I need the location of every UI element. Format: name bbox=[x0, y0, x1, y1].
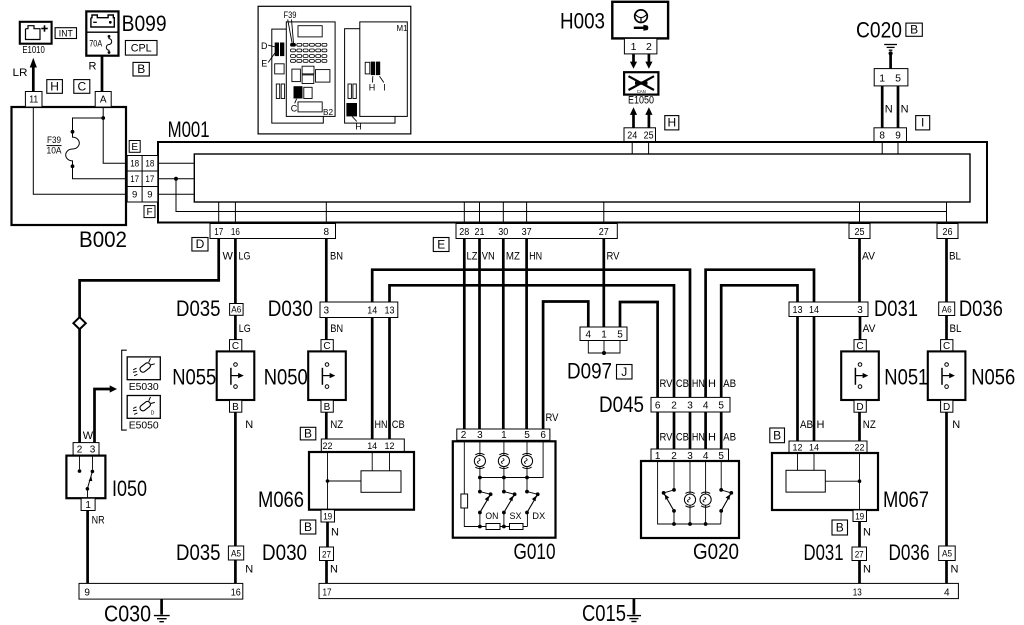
svg-text:18: 18 bbox=[130, 159, 139, 170]
door lock actuator M066 bbox=[309, 452, 414, 510]
wire MZ from M001 pin 30 to G010 pin 1 bbox=[502, 239, 505, 430]
svg-text:21: 21 bbox=[475, 227, 485, 238]
svg-text:D035: D035 bbox=[176, 296, 221, 321]
svg-text:A5: A5 bbox=[231, 549, 241, 560]
G010 bottom resistors bbox=[486, 524, 527, 530]
boxed letter E bbox=[433, 237, 449, 251]
svg-text:D036: D036 bbox=[959, 296, 1003, 321]
svg-text:NR: NR bbox=[92, 515, 105, 527]
connector D031 pin 27 bbox=[852, 547, 867, 561]
svg-text:C: C bbox=[856, 341, 863, 352]
svg-text:C020: C020 bbox=[856, 17, 902, 42]
wire HN from M001 pin 37 to G010 pin 5 bbox=[525, 239, 528, 430]
B002 internal wiring and node bbox=[33, 107, 127, 194]
svg-text:D097: D097 bbox=[567, 359, 612, 384]
svg-text:AV: AV bbox=[862, 250, 876, 262]
svg-text:N: N bbox=[330, 564, 338, 576]
svg-text:A5: A5 bbox=[942, 549, 952, 560]
svg-text:H: H bbox=[708, 378, 716, 390]
pin A of B002 bbox=[95, 92, 111, 108]
connector C of N050 bbox=[321, 340, 333, 352]
svg-text:RV: RV bbox=[660, 432, 674, 444]
wire NZ from N051 to M067 pin 22 bbox=[858, 412, 861, 441]
wire BL to N056 bbox=[945, 316, 948, 340]
boxed letter D bbox=[192, 237, 208, 251]
svg-text:M067: M067 bbox=[883, 487, 929, 512]
wire branch from I050 pin 3 with arrow to keys bbox=[95, 385, 118, 442]
wire N from M067 pin 19 bbox=[858, 522, 861, 548]
G010 lamp column pin 3 bbox=[474, 440, 485, 491]
G010 lamp column pin 1 bbox=[498, 440, 509, 491]
svg-text:D031: D031 bbox=[804, 540, 844, 565]
boxed letter C bbox=[74, 79, 90, 93]
ignition switch I050 bbox=[66, 456, 105, 499]
svg-text:13: 13 bbox=[385, 306, 395, 317]
wire labels below D045 bbox=[660, 432, 737, 444]
wire RV from D097 pin 5 to D045 pin 6 bbox=[620, 302, 658, 397]
G020 left switch bbox=[662, 461, 676, 526]
boxed letter B bbox=[300, 520, 316, 534]
boxed letter B bbox=[906, 23, 922, 37]
svg-text:E: E bbox=[131, 142, 138, 153]
svg-text:BN: BN bbox=[330, 250, 343, 262]
svg-text:B: B bbox=[232, 402, 239, 413]
svg-text:E5050: E5050 bbox=[129, 419, 159, 431]
svg-text:C: C bbox=[232, 341, 239, 352]
inset left rear panel bbox=[272, 29, 324, 123]
svg-text:CPL: CPL bbox=[131, 43, 152, 55]
svg-text:H: H bbox=[369, 82, 376, 92]
M001 bottom connector pin 26 bbox=[937, 224, 958, 239]
inset left front panel B2 bbox=[286, 22, 335, 117]
fuse F39 10A bbox=[47, 130, 128, 179]
svg-text:MZ: MZ bbox=[506, 250, 520, 262]
svg-text:D030: D030 bbox=[268, 296, 313, 321]
H003 connector pins 1 2 bbox=[624, 38, 657, 54]
svg-text:M066: M066 bbox=[258, 487, 304, 512]
wire RV from M001 pin 27 to D097 bbox=[602, 239, 605, 328]
svg-text:A6: A6 bbox=[231, 305, 241, 316]
connector D035 pin A6 bbox=[230, 304, 244, 316]
svg-text:B: B bbox=[773, 428, 781, 442]
wire VN from M001 pin 21 to G010 pin 3 bbox=[478, 239, 481, 430]
wire W from M001 pin 17 bbox=[80, 239, 219, 319]
svg-text:NZ: NZ bbox=[330, 419, 343, 431]
svg-text:W: W bbox=[223, 250, 234, 262]
svg-text:B: B bbox=[304, 520, 312, 534]
svg-text:SX: SX bbox=[510, 511, 523, 522]
M001 top connector pins 8 9 bbox=[874, 128, 907, 142]
turn signal switch G020 bbox=[641, 461, 739, 538]
svg-text:E1010: E1010 bbox=[22, 44, 45, 56]
ground symbol of C030 bbox=[154, 599, 170, 622]
svg-text:B099: B099 bbox=[122, 11, 167, 36]
svg-text:5: 5 bbox=[895, 72, 901, 84]
svg-text:6: 6 bbox=[540, 430, 546, 441]
wire AV from M001 pin 25 bbox=[858, 239, 861, 303]
splice connector D097 pins 4 1 5 bbox=[580, 327, 627, 341]
svg-text:D045: D045 bbox=[599, 392, 644, 417]
wire LR arrow to E1010 bbox=[30, 58, 37, 92]
svg-text:HN: HN bbox=[692, 432, 705, 444]
svg-text:N: N bbox=[952, 419, 960, 431]
wire LG to N055 bbox=[234, 315, 237, 339]
junction unit B002 bbox=[12, 107, 127, 225]
svg-text:19: 19 bbox=[323, 511, 332, 522]
svg-text:N056: N056 bbox=[971, 365, 1015, 390]
G020 right switch bbox=[719, 461, 733, 524]
svg-text:BL: BL bbox=[949, 250, 961, 262]
wire R from B099 to B002 pin A bbox=[101, 56, 104, 92]
svg-text:25: 25 bbox=[644, 130, 654, 141]
svg-text:NZ: NZ bbox=[863, 419, 876, 431]
inset connector C highlighted bbox=[291, 86, 312, 113]
svg-text:2: 2 bbox=[461, 430, 467, 441]
svg-text:17: 17 bbox=[130, 174, 139, 185]
svg-text:1: 1 bbox=[601, 330, 607, 341]
svg-text:I: I bbox=[921, 116, 924, 130]
svg-text:AB: AB bbox=[723, 378, 736, 390]
svg-text:C030: C030 bbox=[104, 601, 151, 625]
svg-text:N: N bbox=[245, 419, 253, 431]
svg-text:AB: AB bbox=[800, 419, 813, 431]
svg-text:D035: D035 bbox=[176, 540, 221, 565]
svg-text:N: N bbox=[951, 564, 959, 576]
svg-text:3: 3 bbox=[324, 306, 330, 317]
ground connector bar C030 bbox=[79, 583, 243, 599]
connector D036 pin A5 bbox=[939, 546, 956, 561]
svg-text:3: 3 bbox=[90, 445, 96, 456]
svg-text:3: 3 bbox=[477, 430, 483, 441]
inset label F39 with leaders bbox=[284, 10, 297, 43]
svg-text:26: 26 bbox=[943, 227, 953, 238]
svg-text:N: N bbox=[245, 564, 253, 576]
svg-text:E: E bbox=[437, 237, 445, 251]
svg-text:INT: INT bbox=[59, 28, 73, 39]
svg-text:N: N bbox=[863, 527, 871, 539]
svg-text:1: 1 bbox=[631, 41, 637, 53]
svg-text:9: 9 bbox=[895, 130, 901, 141]
hazard warning switch G010 bbox=[453, 441, 556, 537]
G020 connector pins 1 2 3 4 5 bbox=[651, 449, 729, 462]
svg-text:2: 2 bbox=[671, 401, 677, 412]
wire LG from M001 pin 16 bbox=[234, 239, 237, 304]
C020 connector pins 1 5 bbox=[874, 69, 908, 86]
svg-text:N: N bbox=[863, 564, 871, 576]
connector D of N051 bbox=[854, 400, 866, 412]
G020 lamp pin 4 bbox=[700, 461, 711, 526]
boxed letter B bbox=[832, 520, 848, 535]
wire N from M066 pin 19 bbox=[326, 522, 329, 547]
wire HN run from D030 pin 14 to D045 pin 3 bbox=[372, 270, 690, 398]
svg-text:I: I bbox=[383, 82, 386, 92]
svg-text:70A: 70A bbox=[89, 39, 103, 50]
wire CB run from D030 pin 13 to D045 pin 2 bbox=[390, 285, 675, 397]
svg-text:LZ: LZ bbox=[467, 250, 478, 262]
G010 switch SX bbox=[502, 490, 522, 529]
inset right front panel M1 bbox=[360, 22, 408, 117]
svg-text:13: 13 bbox=[793, 305, 803, 316]
wire BN from M001 pin 8 bbox=[325, 239, 328, 303]
svg-text:D031: D031 bbox=[874, 296, 918, 321]
M001 internal row 18 bbox=[158, 162, 195, 164]
wire AB run from D045 pin 5 to D031 pin 13 bbox=[721, 285, 797, 397]
M001 internal distribution line bbox=[176, 179, 947, 212]
wire NR to C030 bbox=[86, 511, 89, 584]
wire N to C015 bbox=[325, 561, 328, 584]
svg-text:RV: RV bbox=[607, 250, 621, 262]
svg-text:5: 5 bbox=[617, 330, 623, 341]
wire NZ from N050 to M066 bbox=[325, 412, 328, 439]
svg-text:B: B bbox=[304, 426, 312, 440]
svg-text:N050: N050 bbox=[264, 365, 308, 390]
M001 bottom connector pin 25 bbox=[849, 224, 870, 239]
wire N from N056 bbox=[945, 412, 948, 546]
svg-text:E5030: E5030 bbox=[129, 381, 159, 393]
svg-text:N: N bbox=[331, 527, 339, 539]
svg-text:B002: B002 bbox=[79, 227, 127, 252]
wire BN to N050 bbox=[325, 318, 328, 341]
connector D035 pin A5 bbox=[228, 546, 243, 560]
ground symbol of C015 bbox=[627, 599, 641, 622]
svg-text:30: 30 bbox=[498, 227, 508, 238]
svg-text:10A: 10A bbox=[47, 146, 63, 157]
svg-text:BL: BL bbox=[950, 323, 962, 335]
M001 internal pin stubs bbox=[219, 142, 947, 224]
svg-text:R: R bbox=[89, 61, 97, 73]
svg-text:8: 8 bbox=[879, 130, 885, 141]
svg-text:D036: D036 bbox=[889, 540, 930, 565]
svg-text:8: 8 bbox=[324, 227, 330, 238]
wire H from D031 pin 14 to M067 pin 14 bbox=[813, 317, 816, 442]
G010 connector pins 2 3 1 5 6 bbox=[457, 429, 550, 441]
svg-text:27: 27 bbox=[322, 549, 331, 560]
pushbutton switch N056 bbox=[928, 351, 966, 400]
svg-text:5: 5 bbox=[718, 401, 724, 412]
svg-text:M1: M1 bbox=[397, 23, 408, 33]
boxed letter J bbox=[617, 365, 633, 380]
inset misc slots middle bbox=[292, 66, 330, 83]
G010 switch ON bbox=[478, 490, 499, 529]
M001 bottom connector D group pins 17 16 8 bbox=[210, 224, 336, 239]
inset fuse grid with fuse F39 highlighted bbox=[291, 43, 327, 62]
battery sub-symbol E1010 bbox=[20, 22, 52, 56]
svg-text:H: H bbox=[667, 116, 676, 130]
svg-text:11: 11 bbox=[29, 94, 38, 105]
I050 connector pin 1 bbox=[81, 498, 95, 511]
svg-text:E: E bbox=[261, 59, 267, 69]
svg-text:27: 27 bbox=[855, 549, 864, 560]
connector B of N050 bbox=[321, 400, 333, 412]
svg-text:17: 17 bbox=[323, 587, 332, 598]
wire CB from D030 pin 13 to M066 pin 12 bbox=[388, 318, 391, 440]
svg-text:6: 6 bbox=[655, 401, 661, 412]
svg-text:LG: LG bbox=[239, 323, 251, 335]
connector D031 pins 13 14 3 bbox=[789, 302, 868, 317]
svg-text:N051: N051 bbox=[884, 365, 928, 390]
svg-text:C: C bbox=[77, 79, 86, 93]
boxed letter B bbox=[133, 62, 149, 76]
M001 internal row 17 with node bbox=[158, 177, 195, 181]
inset relay slot bottom with label B2 bbox=[298, 102, 333, 117]
CAN arrows up from M001 pins 24 25 bbox=[630, 107, 653, 128]
svg-text:9: 9 bbox=[147, 190, 152, 201]
connector D of N056 bbox=[941, 400, 953, 412]
svg-text:12: 12 bbox=[793, 443, 803, 454]
wire N from C020 pin 1 bbox=[881, 86, 884, 128]
svg-text:37: 37 bbox=[522, 227, 532, 238]
svg-text:B: B bbox=[910, 23, 918, 37]
svg-text:H: H bbox=[817, 419, 825, 431]
svg-text:2: 2 bbox=[646, 41, 652, 53]
splice diamond on wire W bbox=[73, 317, 85, 329]
inset right rear panel bbox=[345, 29, 395, 123]
M066 connector pin 19 bbox=[321, 510, 335, 523]
connector D045 pins 6 2 3 4 5 bbox=[651, 397, 730, 412]
I050 connector pins 2 3 bbox=[73, 443, 99, 456]
svg-text:14: 14 bbox=[809, 443, 819, 454]
CAN arrows down to E1050 bbox=[630, 54, 653, 69]
svg-text:9: 9 bbox=[132, 190, 137, 201]
G010 switch DX bbox=[525, 490, 546, 527]
svg-text:AB: AB bbox=[723, 432, 736, 444]
bracket for key transmitters bbox=[122, 350, 127, 430]
svg-text:C: C bbox=[291, 104, 298, 114]
wire H run from D045 pin 4 to D031 pin 14 bbox=[706, 270, 814, 398]
svg-text:22: 22 bbox=[323, 441, 333, 452]
wire AV to N051 bbox=[859, 317, 862, 340]
ground connector bar C015 bbox=[319, 583, 958, 598]
svg-text:CB: CB bbox=[676, 378, 689, 390]
svg-text:N: N bbox=[901, 104, 909, 116]
battery with fuse B099 bbox=[86, 11, 118, 55]
svg-text:HN: HN bbox=[692, 378, 705, 390]
svg-text:N: N bbox=[885, 104, 893, 116]
M067 connector pin 19 bbox=[853, 510, 867, 522]
G010 lamp column pin 5 bbox=[521, 440, 532, 491]
label CPL bbox=[125, 41, 157, 56]
svg-text:14: 14 bbox=[809, 305, 819, 316]
M001 top connector pins 24 25 bbox=[624, 128, 656, 142]
svg-text:A6: A6 bbox=[942, 305, 952, 316]
svg-text:D: D bbox=[196, 237, 205, 251]
svg-text:B: B bbox=[137, 62, 145, 76]
pushbutton switch N051 bbox=[841, 351, 879, 400]
svg-text:F39: F39 bbox=[284, 10, 297, 20]
label INT bbox=[55, 28, 76, 40]
svg-text:4: 4 bbox=[703, 401, 709, 412]
svg-text:B2: B2 bbox=[323, 107, 333, 117]
svg-text:4: 4 bbox=[586, 330, 592, 341]
boxed letter F bbox=[144, 206, 155, 218]
key transmitter E5050 bbox=[127, 396, 160, 432]
svg-text:BN: BN bbox=[330, 323, 343, 335]
svg-text:22: 22 bbox=[855, 443, 865, 454]
svg-text:LG: LG bbox=[239, 250, 251, 262]
connector D030 pin 27 bbox=[320, 547, 334, 561]
inset misc slots left bbox=[275, 64, 285, 99]
svg-text:17: 17 bbox=[214, 227, 223, 238]
svg-text:ON: ON bbox=[485, 511, 498, 522]
svg-text:H003: H003 bbox=[560, 8, 605, 33]
M001 internal row 9 bbox=[158, 193, 195, 195]
svg-text:VN: VN bbox=[482, 250, 495, 262]
svg-text:14: 14 bbox=[367, 306, 377, 317]
svg-text:18: 18 bbox=[145, 159, 154, 170]
wire LZ from M001 pin 28 to G010 pin 2 bbox=[463, 239, 466, 430]
svg-text:H: H bbox=[50, 79, 59, 93]
svg-text:14: 14 bbox=[367, 441, 377, 452]
svg-text:B: B bbox=[836, 521, 844, 535]
svg-text:C015: C015 bbox=[582, 600, 626, 625]
M001 bottom connector E group pins 28 21 30 37 27 bbox=[456, 224, 617, 239]
boxed letter H bbox=[47, 79, 63, 93]
svg-text:J: J bbox=[621, 365, 627, 379]
svg-text:12: 12 bbox=[385, 441, 395, 452]
svg-text:1: 1 bbox=[501, 430, 507, 441]
svg-text:D: D bbox=[151, 411, 155, 417]
svg-text:1: 1 bbox=[85, 500, 91, 511]
svg-text:D: D bbox=[856, 402, 863, 413]
svg-text:16: 16 bbox=[231, 588, 241, 599]
boxed letter B bbox=[770, 428, 785, 443]
boxed letter I bbox=[916, 116, 930, 130]
svg-text:CB: CB bbox=[392, 419, 405, 431]
svg-text:G010: G010 bbox=[514, 539, 556, 564]
svg-text:AV: AV bbox=[863, 323, 877, 335]
svg-text:D: D bbox=[261, 41, 268, 51]
CAN network node E1050 bbox=[624, 72, 658, 94]
M001 inner module box bbox=[194, 154, 970, 202]
svg-text:28: 28 bbox=[459, 227, 469, 238]
svg-text:DX: DX bbox=[532, 511, 546, 522]
svg-text:5: 5 bbox=[524, 430, 530, 441]
wire N to C030 bbox=[234, 560, 237, 583]
fuse box location inset bbox=[258, 6, 411, 134]
svg-text:D: D bbox=[943, 402, 950, 413]
svg-text:25: 25 bbox=[855, 227, 865, 238]
door lock actuator M067 bbox=[772, 453, 878, 510]
svg-text:1: 1 bbox=[879, 72, 885, 84]
svg-text:I050: I050 bbox=[112, 476, 147, 501]
connector D030 pins 3 14 13 bbox=[320, 302, 398, 318]
svg-text:H: H bbox=[708, 432, 716, 444]
wire AB from D031 pin 13 to M067 pin 12 bbox=[796, 317, 799, 442]
svg-text:HN: HN bbox=[529, 250, 542, 262]
inset relay slot top bbox=[298, 26, 322, 37]
connector C of N056 bbox=[941, 340, 953, 352]
wire N to C015 bbox=[858, 561, 861, 584]
svg-text:W: W bbox=[83, 430, 94, 442]
svg-text:M001: M001 bbox=[168, 117, 210, 142]
svg-text:3: 3 bbox=[687, 401, 693, 412]
svg-text:C: C bbox=[943, 341, 950, 352]
connector C of N055 bbox=[230, 340, 242, 352]
svg-text:RV: RV bbox=[546, 412, 560, 424]
svg-text:H: H bbox=[355, 121, 362, 131]
wire N from N055 bbox=[234, 412, 237, 546]
G020 pin 1 return line bbox=[658, 461, 721, 524]
wire N to C015 bbox=[945, 561, 948, 584]
svg-text:17: 17 bbox=[145, 174, 154, 185]
svg-text:B: B bbox=[324, 402, 331, 413]
connector C of N051 bbox=[854, 340, 866, 352]
svg-text:F: F bbox=[146, 207, 152, 218]
svg-text:13: 13 bbox=[853, 587, 862, 598]
boxed letter H bbox=[665, 116, 679, 130]
svg-text:9: 9 bbox=[84, 588, 90, 599]
svg-text:E1050: E1050 bbox=[628, 94, 654, 106]
